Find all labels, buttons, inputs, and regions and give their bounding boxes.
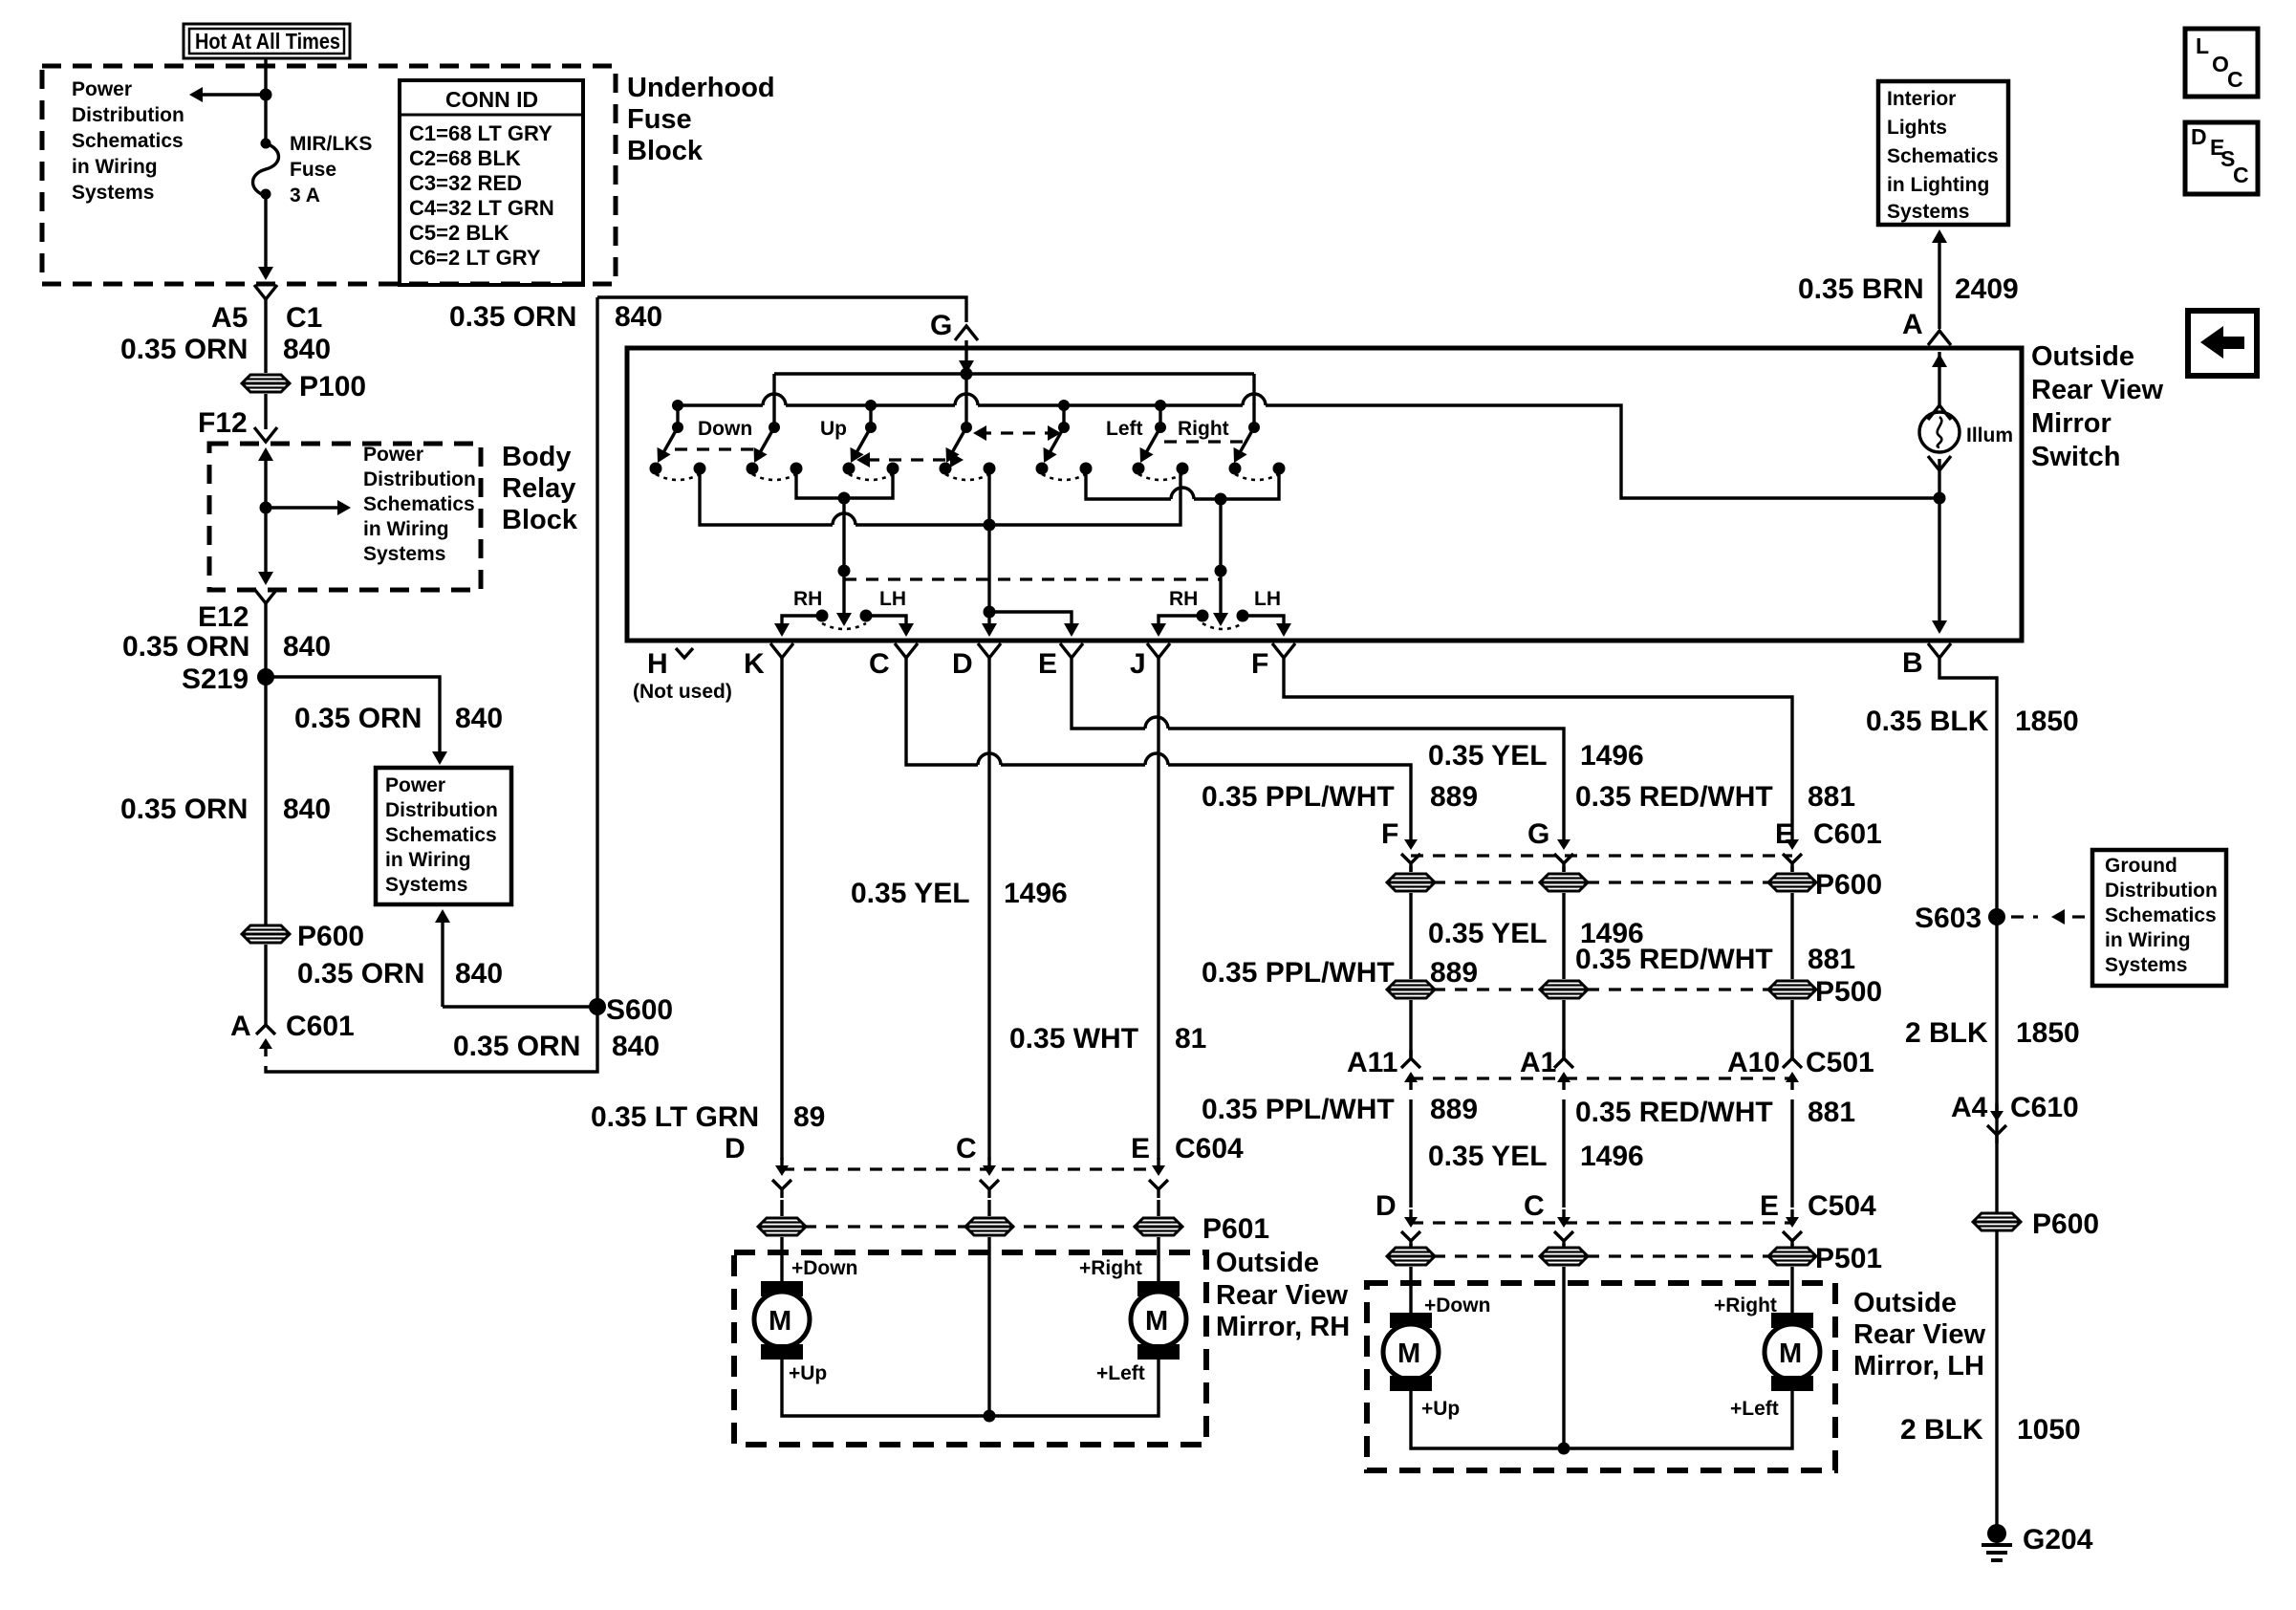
svg-text:CONN ID: CONN ID	[445, 87, 538, 112]
dashed line C604	[782, 1167, 1159, 1170]
connector P600 lens G	[1540, 874, 1588, 891]
connector P100	[242, 375, 290, 392]
svg-text:L: L	[2196, 33, 2209, 58]
svg-text:Down: Down	[698, 418, 752, 440]
svg-text:Schematics: Schematics	[72, 130, 184, 152]
wire P100 to Body Relay Block	[264, 394, 267, 429]
svg-text:M: M	[1145, 1306, 1168, 1337]
svg-text:D: D	[1375, 1190, 1397, 1222]
svg-text:A11: A11	[1347, 1047, 1397, 1078]
wire drop to Right pivot with hop	[1252, 374, 1255, 427]
connector P600 left column	[242, 925, 290, 943]
svg-text:1850: 1850	[2015, 706, 2079, 737]
svg-text:E: E	[1131, 1133, 1150, 1164]
node selector2 link	[1215, 565, 1227, 577]
wire C pin to C601 F	[906, 658, 1411, 832]
svg-text:+Left: +Left	[1730, 1398, 1779, 1420]
wire D pin to C604 C	[987, 658, 990, 1160]
svg-text:Fuse: Fuse	[290, 159, 336, 181]
connector C504 pin C	[1554, 1209, 1573, 1250]
svg-text:C5=2 BLK: C5=2 BLK	[409, 221, 509, 245]
svg-text:840: 840	[283, 631, 331, 663]
wire C1 to P100	[264, 299, 267, 373]
connector A/C601 chevron	[256, 1016, 275, 1056]
svg-text:Right: Right	[1178, 418, 1229, 440]
node selector1 feed	[838, 492, 851, 505]
arrow up into power dist box from S600	[441, 920, 444, 1007]
svg-text:Distribution: Distribution	[2105, 880, 2218, 902]
connector C504 pin E	[1783, 1209, 1802, 1250]
junction dot body relay	[260, 502, 272, 514]
power distribution solid box	[376, 768, 511, 904]
wire illum to B	[1938, 459, 1940, 626]
svg-text:0.35 BLK: 0.35 BLK	[1866, 706, 1989, 737]
svg-text:0.35 PPL/WHT: 0.35 PPL/WHT	[1202, 781, 1395, 813]
connector P601 lens D	[758, 1218, 806, 1235]
svg-text:Mirror: Mirror	[2031, 408, 2112, 439]
switch unit 2	[747, 422, 803, 480]
svg-text:C504: C504	[1808, 1190, 1876, 1222]
svg-text:Distribution: Distribution	[385, 799, 498, 821]
underhood fuse block dashed box	[42, 66, 616, 284]
wire E pin to C601 G	[1072, 658, 1564, 832]
svg-text:Distribution: Distribution	[363, 468, 476, 490]
svg-text:LH: LH	[879, 588, 906, 610]
svg-text:0.35 PPL/WHT: 0.35 PPL/WHT	[1202, 1094, 1395, 1125]
icon DESC box	[2185, 122, 2258, 194]
outside rear view mirror LH dashed box	[1367, 1283, 1835, 1470]
svg-text:D: D	[2191, 124, 2207, 149]
svg-text:Switch: Switch	[2031, 442, 2120, 472]
svg-text:+Down: +Down	[1424, 1295, 1490, 1316]
svg-text:Hot At All Times: Hot At All Times	[195, 29, 340, 54]
dashed line P501	[1411, 1254, 1792, 1257]
svg-text:+Up: +Up	[789, 1362, 827, 1384]
body relay block dashed box	[209, 444, 481, 590]
svg-text:E12: E12	[198, 601, 249, 633]
svg-text:81: 81	[1175, 1023, 1206, 1055]
svg-text:Power: Power	[72, 78, 132, 100]
ground distribution box	[2092, 850, 2226, 986]
svg-text:Block: Block	[627, 136, 704, 166]
svg-text:F12: F12	[198, 407, 248, 439]
svg-text:Schematics: Schematics	[2105, 904, 2217, 926]
wire P600 to P500	[1411, 893, 1792, 979]
wire center drop to pivot with hop	[964, 374, 967, 427]
wire fuse to block bottom	[264, 196, 267, 273]
arrow left to Power Distribution reference	[203, 93, 266, 96]
svg-text:Power: Power	[363, 444, 423, 466]
ground G204	[1982, 1524, 2012, 1560]
svg-text:Schematics: Schematics	[363, 493, 475, 515]
svg-text:C601: C601	[286, 1011, 355, 1042]
svg-text:F: F	[1251, 648, 1268, 680]
svg-text:Rear View: Rear View	[1853, 1319, 1986, 1350]
svg-text:Block: Block	[502, 505, 578, 535]
svg-text:G: G	[930, 310, 952, 341]
wire row1 power bus	[774, 372, 1254, 375]
svg-text:0.35 RED/WHT: 0.35 RED/WHT	[1575, 1097, 1773, 1128]
splice S603	[1988, 908, 2005, 925]
svg-text:LH: LH	[1254, 588, 1281, 610]
svg-text:1496: 1496	[1580, 740, 1644, 772]
connector C601 pin F	[1401, 832, 1420, 872]
svg-text:0.35 ORN: 0.35 ORN	[120, 794, 248, 825]
dashed line P601	[782, 1225, 1159, 1228]
svg-text:C: C	[2227, 67, 2243, 92]
node RH bus junction	[984, 1410, 996, 1423]
switch unit 4 center	[940, 422, 996, 480]
connector P501 lens E	[1768, 1248, 1816, 1265]
svg-text:C4=32 LT GRN: C4=32 LT GRN	[409, 196, 554, 220]
svg-text:Underhood: Underhood	[627, 73, 775, 103]
svg-text:Systems: Systems	[72, 182, 154, 204]
svg-text:C1: C1	[286, 302, 322, 334]
svg-text:0.35 ORN: 0.35 ORN	[449, 301, 576, 333]
wire S219 branch to power dist box	[266, 677, 440, 751]
svg-text:Mirror, LH: Mirror, LH	[1853, 1351, 1984, 1382]
svg-text:1050: 1050	[2017, 1414, 2081, 1446]
svg-text:G204: G204	[2023, 1524, 2093, 1556]
svg-text:C601: C601	[1813, 818, 1882, 850]
wire drop to Up pivot with hop	[772, 374, 775, 427]
switch unit 7	[1227, 422, 1286, 480]
svg-text:in Lighting: in Lighting	[1887, 174, 1989, 196]
hop E over J	[1145, 717, 1168, 729]
svg-text:A1: A1	[1520, 1047, 1556, 1078]
wire E12 to S219	[264, 603, 267, 925]
svg-text:889: 889	[1430, 957, 1478, 989]
dashed arrow to ground distribution box	[2011, 915, 2038, 918]
svg-text:H: H	[647, 648, 668, 680]
dashed line C601	[1411, 854, 1792, 857]
motor M RH horizontal	[1131, 1281, 1186, 1360]
wire stub to Left pivot	[1159, 405, 1161, 427]
svg-text:Left: Left	[1106, 418, 1143, 440]
wire RH motor bus	[782, 1360, 1159, 1416]
hop selector1 drop over net D	[833, 513, 856, 525]
svg-text:881: 881	[1808, 944, 1855, 975]
svg-text:G: G	[1527, 818, 1549, 850]
wire selector2 center drop	[1219, 499, 1222, 618]
connector C604 pin C	[980, 1158, 999, 1198]
wire net D horizontal	[700, 468, 1180, 525]
node selector1 link	[838, 565, 851, 577]
svg-text:C610: C610	[2010, 1092, 2079, 1123]
selector 2 RH/LH contacts	[1197, 610, 1249, 630]
svg-text:D: D	[725, 1133, 746, 1164]
switch unit 1 Down	[650, 422, 706, 480]
svg-text:0.35 BRN: 0.35 BRN	[1798, 273, 1924, 305]
wire A/C601 down right up to S600	[266, 297, 597, 1072]
svg-text:MIR/LKS: MIR/LKS	[290, 133, 372, 155]
svg-text:C: C	[2233, 163, 2249, 187]
svg-text:C6=2 LT GRY: C6=2 LT GRY	[409, 246, 541, 270]
connector P500 lens E	[1768, 981, 1816, 998]
wire B to ground column	[1939, 658, 1997, 1526]
wire J pin to C604 E	[1157, 658, 1159, 1160]
svg-text:A5: A5	[211, 302, 248, 334]
node row2 dots	[672, 400, 683, 411]
node net D junction	[984, 519, 996, 532]
svg-text:+Left: +Left	[1096, 1362, 1145, 1384]
wire C604 to P601	[782, 1200, 1159, 1216]
wire K pin to C604 D	[780, 658, 783, 1160]
wire J bracket	[1159, 616, 1202, 630]
svg-text:Outside: Outside	[2031, 341, 2134, 372]
connector C501 pin A11	[1401, 1050, 1420, 1090]
wire row2 ground bus to illum	[678, 405, 1939, 498]
svg-text:C604: C604	[1175, 1133, 1244, 1164]
connector P600 lens E	[1768, 874, 1816, 891]
svg-text:0.35 YEL: 0.35 YEL	[1428, 918, 1548, 949]
svg-text:840: 840	[455, 703, 503, 734]
svg-text:(Not used): (Not used)	[633, 681, 732, 703]
svg-text:Rear View: Rear View	[2031, 375, 2164, 405]
svg-text:Body: Body	[502, 442, 572, 472]
motor M RH vertical	[754, 1281, 810, 1360]
svg-text:M: M	[769, 1306, 791, 1337]
svg-text:A10: A10	[1727, 1047, 1780, 1078]
svg-text:Illum: Illum	[1966, 424, 2013, 446]
wire P500 to C501	[1411, 1000, 1792, 1058]
svg-text:2409: 2409	[1955, 273, 2019, 305]
svg-text:0.35 WHT: 0.35 WHT	[1009, 1023, 1138, 1055]
svg-text:Outside: Outside	[1216, 1248, 1319, 1278]
pin A5/C1 connector chevron	[254, 285, 277, 299]
switch unit 3	[843, 422, 899, 480]
svg-text:P600: P600	[1815, 869, 1882, 901]
fuse MIR/LKS 3 A	[253, 139, 279, 200]
svg-text:D: D	[952, 648, 973, 680]
svg-text:+Up: +Up	[1421, 1398, 1460, 1420]
connector C504 pin D	[1401, 1209, 1420, 1250]
node illum/row2 junction	[1934, 492, 1946, 505]
connector C604 pin D	[772, 1158, 791, 1198]
svg-text:881: 881	[1808, 1097, 1855, 1128]
svg-text:889: 889	[1430, 781, 1478, 813]
junction dot	[260, 89, 272, 101]
svg-text:1850: 1850	[2016, 1017, 2080, 1049]
wire inside body relay block	[264, 457, 267, 577]
dashed link center-left with arrows	[979, 431, 1054, 434]
svg-text:C3=32 RED: C3=32 RED	[409, 171, 522, 195]
dashed link Down pair	[675, 447, 753, 450]
wire U bracket units 5-7	[1086, 468, 1279, 499]
hop unit6 wire over U bracket	[1171, 488, 1194, 499]
svg-text:0.35 ORN: 0.35 ORN	[453, 1031, 580, 1062]
connector C604 pin E	[1149, 1158, 1168, 1198]
wire P601 into RH mirror	[782, 1237, 1159, 1416]
svg-text:Power: Power	[385, 774, 445, 796]
svg-text:C501: C501	[1806, 1047, 1874, 1078]
switch unit 5	[1036, 422, 1093, 480]
node G bus junction	[961, 368, 973, 381]
svg-text:0.35 ORN: 0.35 ORN	[294, 703, 422, 734]
svg-text:Lights: Lights	[1887, 117, 1947, 139]
svg-text:Ground: Ground	[2105, 855, 2177, 877]
connector P601 lens E	[1135, 1218, 1182, 1235]
svg-text:Fuse: Fuse	[627, 104, 692, 135]
motor M LH horizontal	[1765, 1313, 1820, 1391]
wire F bracket	[1243, 616, 1284, 630]
svg-text:Rear View: Rear View	[1216, 1280, 1349, 1311]
switch unit 6	[1133, 422, 1189, 480]
dashed line P500	[1411, 988, 1792, 990]
svg-text:P600: P600	[2032, 1208, 2099, 1240]
svg-text:J: J	[1130, 648, 1146, 680]
svg-text:+Down: +Down	[791, 1257, 857, 1279]
interior lights schematics box	[1878, 81, 2008, 225]
connector P601 lens C	[965, 1218, 1013, 1235]
dashed line C504	[1411, 1221, 1792, 1224]
arrow right inside body relay block	[266, 506, 337, 509]
svg-text:89: 89	[793, 1101, 825, 1133]
svg-text:1496: 1496	[1580, 1141, 1644, 1172]
connector C601 pin G	[1554, 832, 1573, 872]
svg-text:P601: P601	[1202, 1213, 1269, 1245]
connector P501 lens C	[1540, 1248, 1588, 1265]
svg-text:Up: Up	[820, 418, 847, 440]
svg-text:C1=68 LT GRY: C1=68 LT GRY	[409, 121, 552, 145]
svg-text:B: B	[1902, 647, 1923, 679]
svg-text:C: C	[869, 648, 890, 680]
dashed link up-center with arrows	[867, 458, 956, 461]
wire LH motor bus	[1411, 1391, 1792, 1448]
svg-text:M: M	[1397, 1338, 1420, 1369]
svg-text:881: 881	[1808, 781, 1855, 813]
svg-text:2 BLK: 2 BLK	[1900, 1414, 1983, 1446]
svg-text:S600: S600	[606, 994, 673, 1026]
pin E12 chevron	[254, 589, 277, 603]
svg-text:0.35 PPL/WHT: 0.35 PPL/WHT	[1202, 957, 1395, 989]
svg-text:P100: P100	[299, 371, 366, 402]
svg-text:0.35 ORN: 0.35 ORN	[297, 958, 424, 990]
svg-text:C: C	[1524, 1190, 1545, 1222]
svg-text:0.35 YEL: 0.35 YEL	[851, 878, 970, 909]
svg-text:K: K	[744, 648, 765, 680]
wire stub to pivot 5	[1062, 405, 1065, 427]
svg-text:in Wiring: in Wiring	[72, 156, 158, 178]
svg-text:P501: P501	[1815, 1243, 1882, 1274]
wire selector1 center drop with hop	[842, 498, 845, 618]
svg-text:Interior: Interior	[1887, 88, 1956, 110]
wire C bracket	[866, 616, 906, 630]
lamp Illum	[1919, 405, 1960, 470]
svg-text:Systems: Systems	[363, 543, 445, 565]
wire D pin drop	[987, 468, 990, 630]
svg-text:840: 840	[455, 958, 503, 990]
svg-text:C: C	[956, 1133, 977, 1164]
wire U bracket units 2-3	[796, 468, 893, 498]
svg-text:Schematics: Schematics	[385, 824, 497, 846]
svg-text:Outside: Outside	[1853, 1288, 1957, 1318]
svg-text:0.35 YEL: 0.35 YEL	[1428, 1141, 1548, 1172]
wire P501 into LH mirror	[1411, 1267, 1792, 1448]
dashed line P600	[1411, 881, 1792, 883]
wire stub to Down pivot	[676, 405, 679, 427]
node D-E branch	[984, 606, 996, 619]
svg-text:P600: P600	[297, 921, 364, 952]
connector C601 pin E	[1783, 832, 1802, 872]
svg-text:Mirror, RH: Mirror, RH	[1216, 1312, 1350, 1342]
CONN ID table	[400, 80, 583, 285]
wire K bracket	[782, 616, 822, 630]
svg-text:P500: P500	[1815, 976, 1882, 1008]
svg-text:RH: RH	[793, 588, 822, 610]
svg-text:Distribution: Distribution	[72, 104, 184, 126]
svg-text:889: 889	[1430, 1094, 1478, 1125]
splice S600	[589, 998, 606, 1015]
wire F pin to C601 E	[1284, 658, 1792, 832]
connector C501 pin A1	[1554, 1050, 1573, 1090]
svg-text:840: 840	[283, 794, 331, 825]
svg-text:0.35 ORN: 0.35 ORN	[120, 334, 248, 365]
wire from Hot At All Times into fuse block	[264, 58, 267, 140]
node LH bus junction	[1558, 1443, 1570, 1455]
svg-text:C2=68 BLK: C2=68 BLK	[409, 146, 521, 170]
connector P501 lens D	[1387, 1248, 1435, 1265]
svg-text:0.35 RED/WHT: 0.35 RED/WHT	[1575, 944, 1773, 975]
wire P600 to A/C601	[264, 945, 267, 1016]
connector C501 pin A10	[1783, 1050, 1802, 1090]
svg-text:0.35 ORN: 0.35 ORN	[122, 631, 249, 663]
connector P600 lens F	[1387, 874, 1435, 891]
icon back arrow box	[2188, 311, 2257, 376]
svg-text:Systems: Systems	[385, 874, 467, 896]
wire E pin branch	[989, 612, 1072, 630]
outside rear view mirror switch box	[627, 348, 2022, 641]
hop C over J	[1145, 753, 1168, 765]
wire interior lights to A pin	[1938, 237, 1940, 329]
svg-text:1496: 1496	[1004, 878, 1068, 909]
node selector2 feed	[1215, 493, 1227, 506]
svg-text:in Wiring: in Wiring	[2105, 929, 2191, 951]
wire G into box	[964, 340, 967, 365]
svg-text:in Wiring: in Wiring	[385, 849, 471, 871]
svg-text:+Right: +Right	[1714, 1295, 1777, 1316]
dashed selector link	[844, 577, 1221, 580]
pin into body relay block	[254, 427, 277, 442]
svg-text:+Right: +Right	[1079, 1257, 1142, 1279]
svg-text:840: 840	[615, 301, 662, 333]
icon LOC box	[2185, 29, 2258, 97]
svg-text:0.35 LT GRN: 0.35 LT GRN	[591, 1101, 759, 1133]
svg-text:F: F	[1381, 818, 1398, 850]
connector P500 lens F	[1387, 981, 1435, 998]
wire C504 to P501	[1411, 1244, 1792, 1246]
svg-text:in Wiring: in Wiring	[363, 518, 449, 540]
outside rear view mirror RH dashed box	[734, 1252, 1206, 1445]
connector P500 lens G	[1540, 981, 1588, 998]
dashed link right pair	[1164, 440, 1248, 443]
dashed line C501	[1411, 1077, 1792, 1079]
svg-text:M: M	[1779, 1338, 1802, 1369]
motor M LH vertical	[1383, 1313, 1439, 1391]
wire C601 to P600	[1411, 866, 1792, 872]
splice S219	[257, 668, 274, 685]
svg-text:A4: A4	[1951, 1092, 1988, 1123]
selector 1 RH/LH contacts	[816, 610, 873, 630]
svg-text:S219: S219	[182, 664, 249, 695]
connector C610 chevron	[1987, 1103, 2006, 1143]
svg-text:RH: RH	[1169, 588, 1198, 610]
Hot At All Times label box	[184, 24, 350, 58]
svg-text:0.35 YEL: 0.35 YEL	[1428, 740, 1548, 772]
svg-text:Relay: Relay	[502, 473, 575, 504]
wire S600 branch to power dist box	[443, 1005, 597, 1008]
wire C501 to C504	[1411, 1099, 1792, 1207]
